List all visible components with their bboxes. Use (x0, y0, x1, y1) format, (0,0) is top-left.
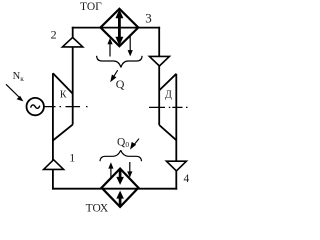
svg-text:ТОХ: ТОХ (86, 203, 109, 215)
shaft centerline left (dash-dot) (44, 106, 88, 108)
heat flow arrow down (right, under TOG) (129, 36, 131, 51)
brace under TOG arrows (97, 56, 143, 68)
motor circle (27, 98, 44, 115)
wire left upper pipe (corner 2 down through compressor right edge) (72, 27, 74, 125)
svg-text:Nк: Nк (13, 71, 25, 83)
motor drive arrow Nk (6, 84, 21, 98)
heat exchanger TOX diamond (102, 169, 139, 207)
TOX inner converging arrows (119, 170, 122, 179)
svg-text:Q0: Q0 (117, 137, 129, 150)
wire top line (72, 27, 160, 29)
heat flow arrow up (left, above TOX) (110, 166, 112, 178)
svg-text:1: 1 (69, 150, 75, 164)
heat exchanger TOG diamond (101, 9, 139, 46)
svg-text:3: 3 (145, 11, 152, 26)
shaft centerline right (dash-dot) (149, 106, 188, 108)
svg-text:ТОГ: ТОГ (80, 1, 102, 13)
valve triangle 4 (flow down) (166, 161, 186, 171)
wire left lower pipe (compressor left edge down to bottom corner) (52, 73, 54, 189)
svg-text:Q: Q (116, 77, 125, 91)
brace above TOX arrows (100, 150, 142, 161)
svg-text:4: 4 (184, 173, 190, 185)
wire right lower pipe (expander right edge down to bottom corner) (175, 74, 177, 190)
heat flow arrow down (right, above TOX) (129, 162, 131, 172)
wire bottom line (52, 188, 177, 190)
valve triangle 1 (flow up) (44, 160, 64, 170)
arrow Q out (113, 70, 118, 78)
svg-text:Д: Д (165, 89, 172, 100)
valve triangle 2 (flow up) (62, 37, 82, 47)
expander D body (159, 74, 176, 140)
wire right upper pipe (corner 3 down to expander) (158, 27, 160, 125)
compressor K body (53, 73, 73, 140)
svg-text:2: 2 (51, 28, 57, 42)
motor sine symbol (31, 105, 40, 108)
TOG inner double arrow (118, 16, 121, 40)
svg-text:К: К (60, 90, 67, 101)
heat flow arrow up (left, under TOG) (109, 42, 111, 57)
arrow Q0 in (134, 139, 139, 145)
valve triangle 3 (flow down) (149, 56, 169, 66)
